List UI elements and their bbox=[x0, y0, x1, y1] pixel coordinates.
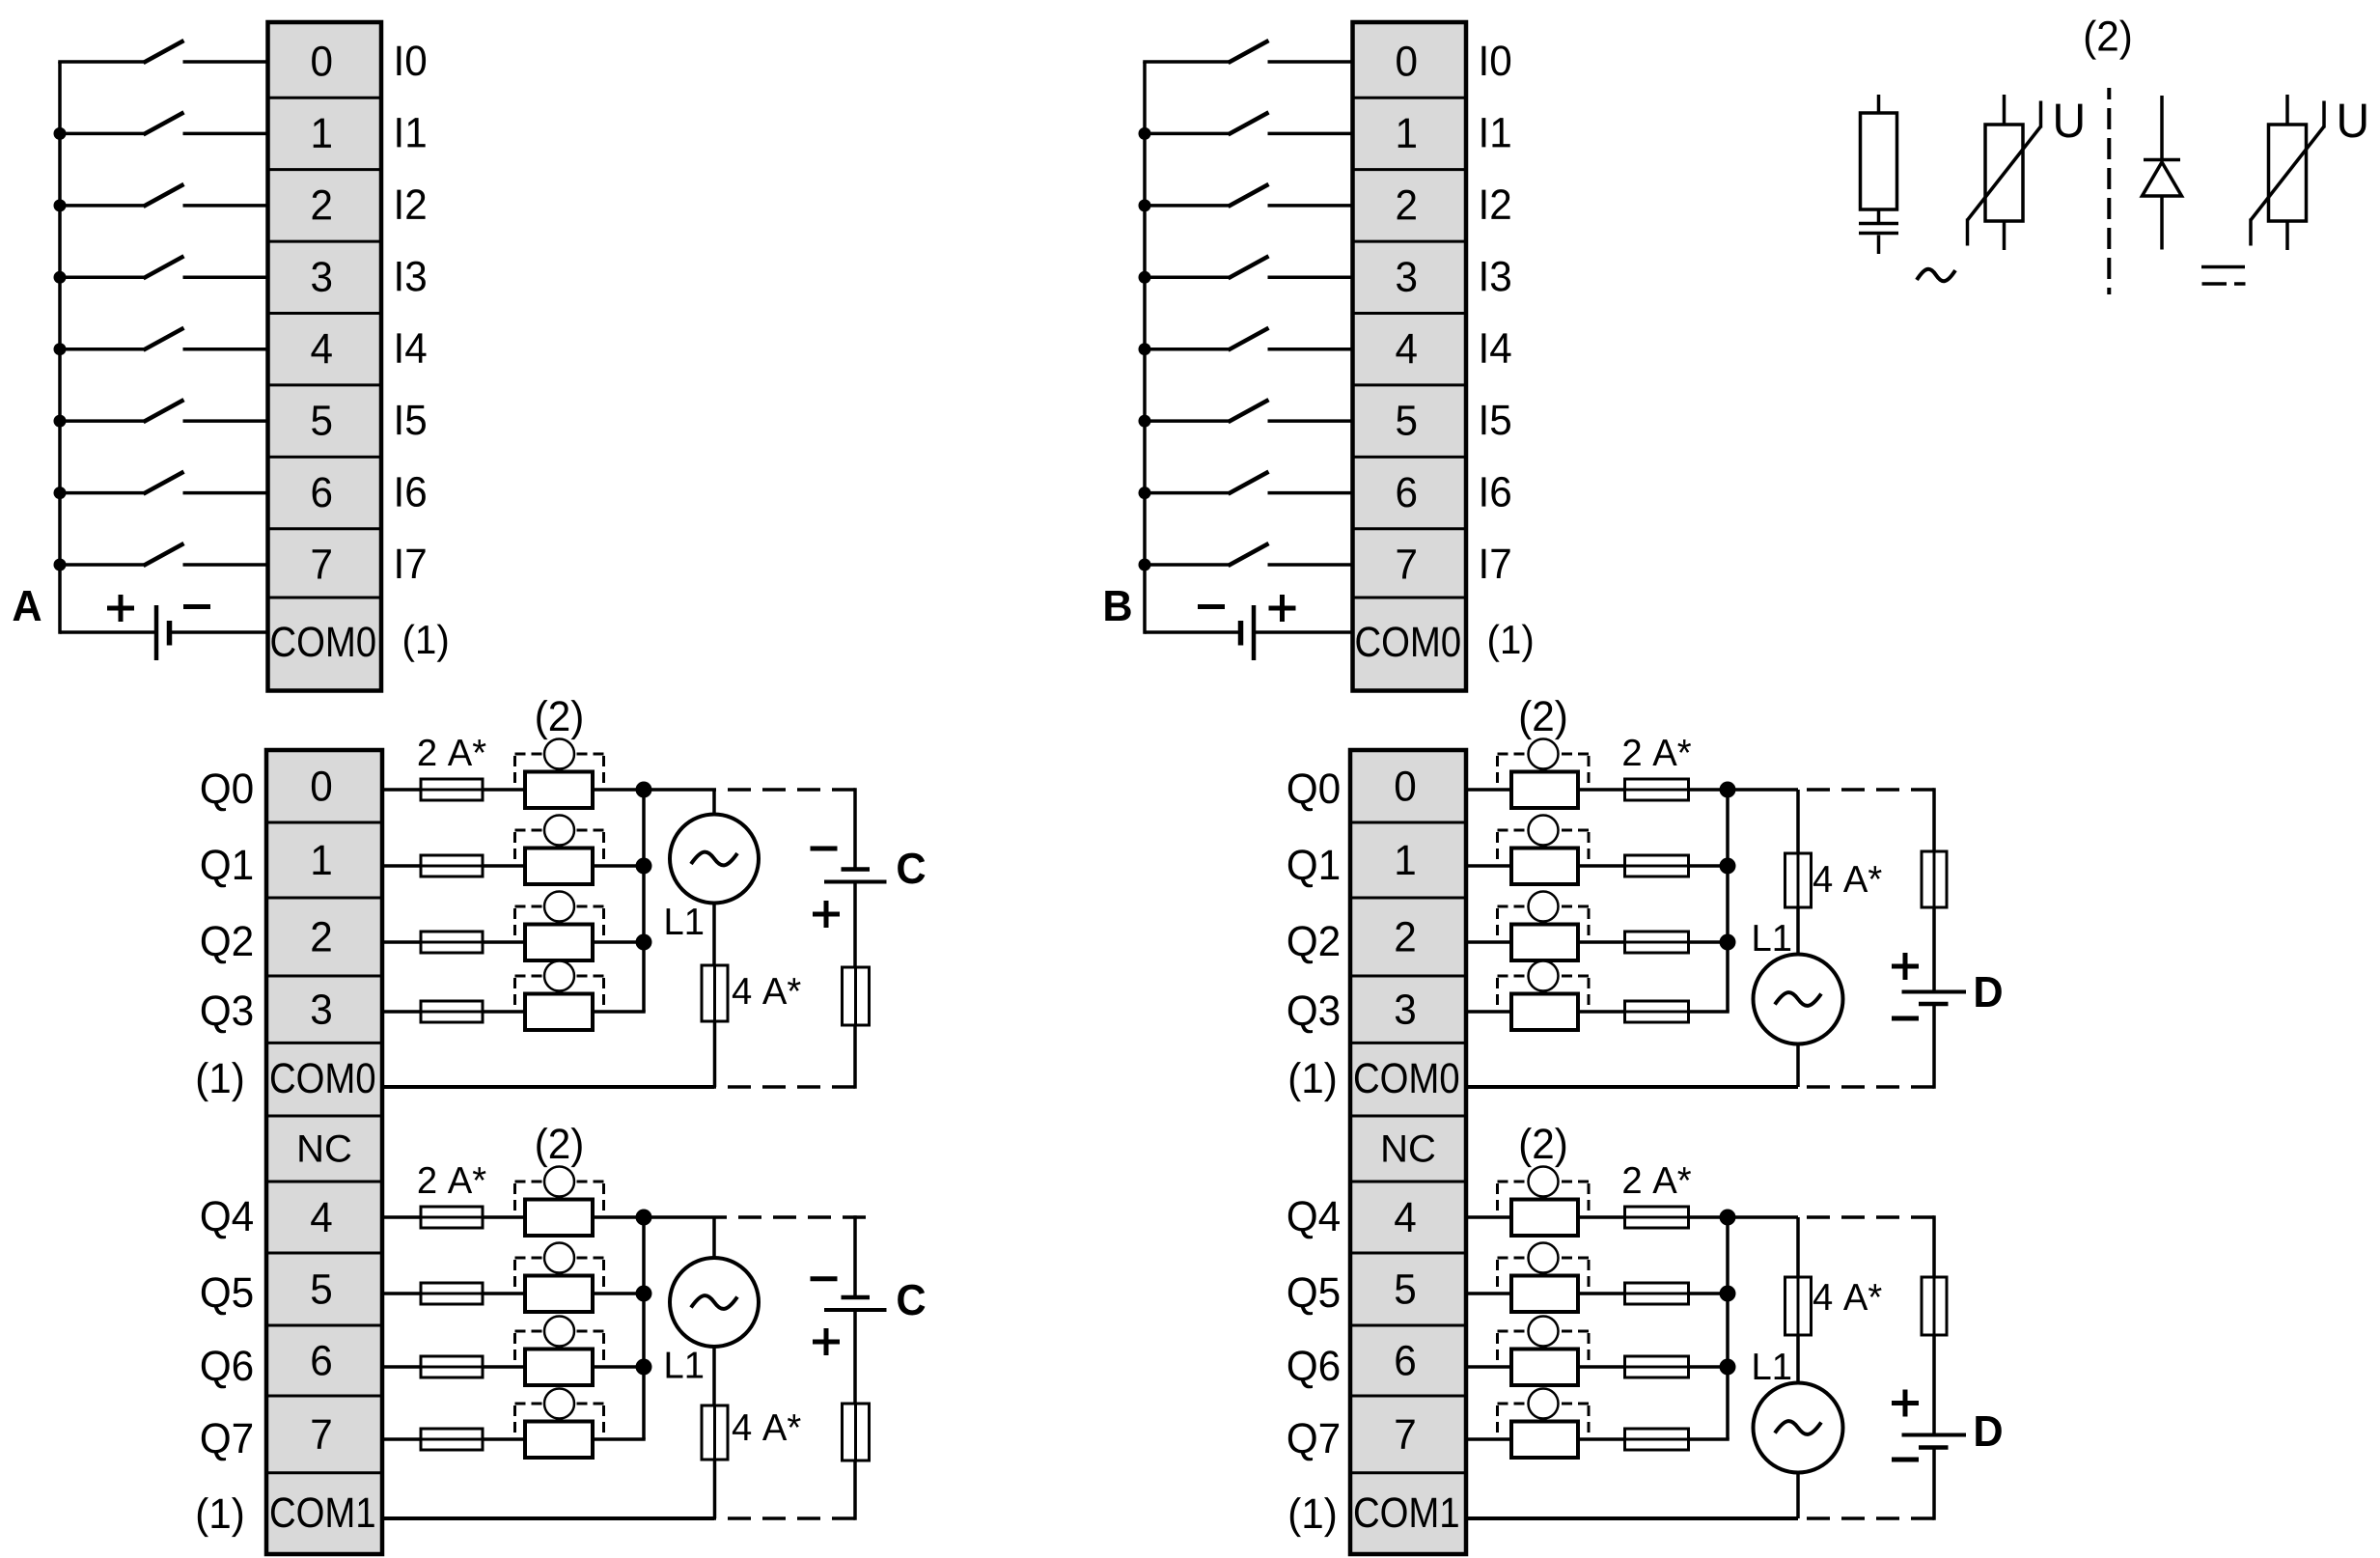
terminal 3 label (A) bbox=[312, 262, 331, 292]
fuse 4A in L1 branch (D) bbox=[1785, 790, 1812, 907]
wire and load with suppressor row 3 (D) bbox=[1467, 1437, 1511, 1441]
label C bbox=[898, 853, 925, 884]
wire load to bus bbox=[593, 940, 644, 944]
COM return wire bbox=[382, 1516, 714, 1520]
terminal 4 label (A) bbox=[311, 334, 331, 363]
labels (1) for COM0 and COM1 bbox=[198, 1062, 242, 1537]
load with suppressor row 0 bbox=[515, 739, 604, 809]
wire bus to L1 branch bbox=[644, 788, 714, 792]
battery supply B (- left) bbox=[1145, 595, 1353, 660]
common bus wire (block A) bbox=[58, 62, 62, 634]
junction dot bbox=[636, 1210, 652, 1226]
switch contact input I6 (A) bbox=[54, 472, 268, 499]
battery D branch right side bbox=[1892, 1215, 1966, 1520]
terminal 0 label bbox=[1396, 771, 1415, 801]
terminal block A (inputs 0-7, COM0) bbox=[268, 22, 382, 691]
terminal 1 label (B) bbox=[1398, 119, 1416, 148]
wire and load with suppressor row 1 (D) bbox=[1467, 864, 1511, 868]
switch contact input I3 (B) bbox=[1139, 256, 1353, 284]
terminal 6 label (B) bbox=[1398, 477, 1416, 507]
wire and load with suppressor row 2 (D) bbox=[1467, 1365, 1511, 1369]
switch contact input I2 (A) bbox=[54, 184, 268, 212]
dashed return wire (D bottom) bbox=[1798, 1085, 1934, 1089]
wire bus to L1 branch (D) bbox=[1728, 788, 1798, 792]
legend varistor with U (DC side) bbox=[2251, 95, 2324, 250]
switch contact input I1 (B) bbox=[1139, 112, 1353, 139]
fuse 2A row 0 (D) bbox=[1578, 1207, 1728, 1228]
terminal 5 label (A) bbox=[312, 405, 331, 435]
lamp/source L1 bbox=[670, 790, 759, 965]
label (1) for COM0 (B) bbox=[1489, 625, 1532, 662]
wire load to bus bbox=[593, 788, 644, 792]
terminal 0 label (B) bbox=[1397, 46, 1416, 76]
terminal 0 label (A) bbox=[312, 46, 331, 76]
dashed return wire (D bottom) bbox=[1798, 1516, 1934, 1520]
terminal 1 label bbox=[1397, 846, 1414, 875]
legend RC snubber (resistor + capacitor) bbox=[1859, 95, 1898, 254]
terminal block B (inputs 0-7, COM0) bbox=[1353, 22, 1467, 691]
terminal COM0 label bbox=[1355, 1063, 1458, 1093]
fuse 2A output row 1 bbox=[382, 1283, 525, 1304]
wire load to bus bbox=[593, 1292, 644, 1295]
fuse 2A output row 3 bbox=[382, 1429, 525, 1450]
load with suppressor row 1 bbox=[515, 1243, 604, 1313]
terminal COM0 label (A) bbox=[271, 626, 374, 656]
dashed wire to battery branch (top) bbox=[714, 788, 855, 792]
dashed wire to battery branch (D top) bbox=[1798, 1215, 1934, 1219]
bus vertical (D) bbox=[1726, 1217, 1730, 1439]
wire load to bus bbox=[593, 1010, 646, 1014]
terminal 7 label bbox=[1396, 1420, 1414, 1449]
label B bbox=[1105, 591, 1130, 621]
lamp/source L1 (D) bbox=[1754, 1335, 1843, 1518]
fuse 2A row 2 (D) bbox=[1578, 1356, 1728, 1377]
labels I0-I7 for block B bbox=[1481, 45, 1510, 578]
junction dot bbox=[1720, 782, 1736, 798]
fuse 2A row 2 (D) bbox=[1578, 932, 1728, 953]
label C bbox=[898, 1285, 925, 1316]
load with suppressor row 1 bbox=[515, 816, 604, 885]
label A bbox=[13, 591, 41, 621]
terminal NC label bbox=[299, 1135, 350, 1162]
label 2 A* bbox=[419, 739, 486, 765]
label 2 A* (D) bbox=[1623, 739, 1691, 765]
labels (1) for COM0 and COM1 bbox=[1290, 1062, 1335, 1537]
junction dot bbox=[636, 1286, 652, 1302]
bus vertical bbox=[642, 1217, 646, 1439]
load with suppressor row 2 bbox=[515, 1317, 604, 1386]
labels I0-I7 for block A bbox=[397, 45, 426, 578]
dashed return wire (bottom) bbox=[714, 1516, 855, 1520]
label 4 A* bbox=[733, 978, 801, 1004]
dashed wire to battery branch (top) bbox=[714, 1215, 866, 1219]
junction dot bbox=[1720, 1359, 1736, 1376]
wire load to bus bbox=[593, 864, 644, 868]
terminal 6 label bbox=[1396, 1346, 1414, 1376]
junction dot bbox=[1720, 1286, 1736, 1302]
legend label U (DC varistor) bbox=[2339, 104, 2366, 138]
wire bus to L1 branch (D) bbox=[1728, 1215, 1798, 1219]
legend dashed divider bbox=[2107, 88, 2111, 294]
junction dot bbox=[636, 1359, 652, 1376]
output labels Q0-Q7 bbox=[202, 773, 253, 1461]
switch contact input I4 (B) bbox=[1139, 328, 1353, 356]
label 4 A* bbox=[733, 1414, 801, 1440]
legend diode bbox=[2143, 96, 2182, 250]
terminal COM0 label (B) bbox=[1356, 626, 1459, 656]
wire and load with suppressor row 0 (D) bbox=[1467, 1215, 1511, 1219]
terminal 1 label bbox=[313, 846, 330, 875]
terminal 6 label (A) bbox=[313, 477, 331, 507]
lamp/source L1 bbox=[670, 1217, 759, 1405]
label L1 bbox=[667, 908, 704, 934]
terminal 3 label (B) bbox=[1397, 262, 1416, 292]
battery D branch right side bbox=[1892, 788, 1966, 1089]
terminal block D-side (outputs Q0-Q7, COM0, NC, COM1) bbox=[1350, 750, 1466, 1554]
junction dot bbox=[636, 934, 652, 951]
switch contact input I7 (A) bbox=[54, 543, 268, 571]
terminal COM0 label bbox=[271, 1063, 374, 1093]
terminal 7 label (A) bbox=[313, 549, 331, 578]
terminal 4 label bbox=[1395, 1203, 1415, 1232]
fuse 2A output row 2 bbox=[382, 932, 525, 953]
output labels Q0-Q7 bbox=[1288, 773, 1340, 1461]
dashed return wire (bottom) bbox=[714, 1085, 855, 1089]
wire load to bus bbox=[593, 1215, 644, 1219]
junction dot bbox=[1720, 858, 1736, 875]
terminal 2 label bbox=[1396, 922, 1414, 952]
wire bus to L1 branch bbox=[644, 1215, 714, 1219]
wire and load with suppressor row 1 (D) bbox=[1467, 1292, 1511, 1295]
fuse 2A output row 3 bbox=[382, 1001, 525, 1022]
wire load to bus bbox=[593, 1437, 646, 1441]
label 2 A* (D) bbox=[1623, 1167, 1691, 1193]
label 4 A* (D) bbox=[1813, 1284, 1882, 1310]
fuse 4A in L1 branch bbox=[702, 965, 728, 1021]
terminal 7 label bbox=[312, 1420, 330, 1449]
switch contact input I2 (B) bbox=[1139, 184, 1353, 212]
fuse 2A output row 0 bbox=[382, 1207, 525, 1228]
dashed wire to battery branch (D top) bbox=[1798, 788, 1934, 792]
terminal 5 label bbox=[312, 1274, 331, 1304]
label L1 (D) bbox=[1755, 925, 1791, 951]
switch contact input I0 (A) bbox=[58, 41, 267, 63]
fuse 2A row 3 (D) bbox=[1578, 1001, 1730, 1022]
fuse 2A row 1 (D) bbox=[1578, 1283, 1728, 1304]
label (2) suppressor bbox=[537, 700, 581, 739]
legend varistor with U (AC side) bbox=[1968, 95, 2041, 250]
switch contact input I6 (B) bbox=[1139, 472, 1353, 499]
switch contact input I3 (A) bbox=[54, 256, 268, 284]
fuse 2A output row 0 bbox=[382, 779, 525, 800]
terminal 3 label bbox=[1396, 994, 1415, 1024]
switch contact input I7 (B) bbox=[1139, 543, 1353, 571]
label (2) suppressor bbox=[1521, 1127, 1565, 1167]
legend label (2) bbox=[2086, 20, 2130, 60]
terminal 1 label (A) bbox=[314, 119, 331, 148]
fuse 4A in L1 branch (D) bbox=[1785, 1217, 1812, 1335]
switch contact input I5 (A) bbox=[54, 400, 268, 428]
fuse 2A output row 1 bbox=[382, 855, 525, 876]
terminal 2 label (B) bbox=[1398, 190, 1416, 220]
junction dot bbox=[636, 782, 652, 798]
switch contact input I4 (A) bbox=[54, 328, 268, 356]
wire fuse to COM wire bbox=[713, 1460, 717, 1518]
label L1 bbox=[667, 1352, 704, 1378]
battery C branch right side bbox=[811, 1215, 887, 1520]
common bus wire (block B) bbox=[1143, 62, 1147, 634]
lamp/source L1 (D) bbox=[1754, 907, 1843, 1087]
bus vertical (D) bbox=[1726, 790, 1730, 1012]
terminal COM1 label bbox=[1355, 1497, 1458, 1527]
bus vertical bbox=[642, 790, 646, 1012]
COM return wire bbox=[382, 1085, 714, 1089]
legend AC tilde symbol bbox=[1917, 269, 1955, 281]
label 2 A* bbox=[419, 1167, 486, 1193]
load with suppressor row 3 bbox=[515, 1389, 604, 1459]
junction dot bbox=[636, 858, 652, 875]
load with suppressor row 2 bbox=[515, 892, 604, 961]
wire fuse to COM wire bbox=[713, 1021, 717, 1087]
fuse 4A in L1 branch bbox=[702, 1405, 728, 1460]
fuse 2A row 0 (D) bbox=[1578, 779, 1728, 800]
label L1 (D) bbox=[1755, 1353, 1791, 1379]
switch contact input I1 (A) bbox=[54, 112, 268, 139]
battery C branch right side bbox=[811, 788, 887, 1089]
COM return wire (D) bbox=[1467, 1085, 1798, 1089]
terminal 2 label (A) bbox=[313, 190, 331, 220]
battery supply A (+ left) bbox=[60, 595, 268, 660]
legend DC symbol bbox=[2201, 267, 2246, 285]
terminal NC label bbox=[1383, 1135, 1434, 1162]
legend label U (AC varistor) bbox=[2056, 104, 2082, 138]
terminal 4 label bbox=[311, 1203, 331, 1232]
label 4 A* (D) bbox=[1813, 866, 1882, 892]
terminal 7 label (B) bbox=[1398, 549, 1416, 578]
terminal 2 label bbox=[312, 922, 330, 952]
terminal 5 label (B) bbox=[1397, 405, 1416, 435]
wire load to bus bbox=[593, 1365, 644, 1369]
junction dot bbox=[1720, 934, 1736, 951]
terminal 0 label bbox=[312, 771, 331, 801]
fuse 2A row 1 (D) bbox=[1578, 855, 1728, 876]
terminal COM1 label bbox=[271, 1497, 374, 1527]
terminal 6 label bbox=[312, 1346, 330, 1376]
switch contact input I0 (B) bbox=[1143, 41, 1352, 63]
load with suppressor row 3 bbox=[515, 961, 604, 1031]
load with suppressor row 0 bbox=[515, 1167, 604, 1237]
label (1) for COM0 (A) bbox=[404, 625, 447, 662]
fuse 2A row 3 (D) bbox=[1578, 1429, 1730, 1450]
wire and load with suppressor row 0 (D) bbox=[1467, 788, 1511, 792]
junction dot bbox=[1720, 1210, 1736, 1226]
terminal block C-side (outputs Q0-Q7, COM0, NC, COM1) bbox=[266, 750, 382, 1554]
label (2) suppressor bbox=[537, 1127, 581, 1167]
wire and load with suppressor row 3 (D) bbox=[1467, 1010, 1511, 1014]
terminal 3 label bbox=[312, 994, 331, 1024]
label (2) suppressor bbox=[1521, 700, 1565, 739]
switch contact input I5 (B) bbox=[1139, 400, 1353, 428]
fuse 2A output row 2 bbox=[382, 1356, 525, 1377]
COM return wire (D) bbox=[1467, 1516, 1798, 1520]
terminal 4 label (B) bbox=[1396, 334, 1416, 363]
label D bbox=[1976, 977, 2001, 1007]
terminal 5 label bbox=[1396, 1274, 1415, 1304]
label D bbox=[1976, 1416, 2001, 1446]
wire and load with suppressor row 2 (D) bbox=[1467, 940, 1511, 944]
